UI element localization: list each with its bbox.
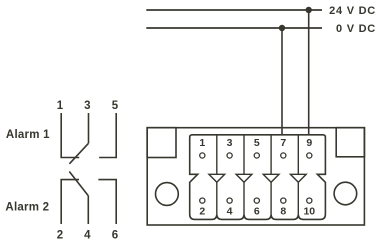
terminal 10 contact circle bottom: [307, 198, 312, 203]
terminal 6 contact circle bottom: [254, 198, 259, 203]
terminal 7 contact circle top: [281, 153, 286, 158]
svg-text:9: 9: [306, 137, 312, 149]
connector housing outline: [147, 128, 364, 225]
terminal 8 contact circle bottom: [281, 198, 286, 203]
terminal 4 contact circle bottom: [227, 198, 232, 203]
terminal 3 contact circle top: [227, 153, 232, 158]
housing keying notch top-right: [336, 128, 364, 157]
svg-text:6: 6: [112, 230, 118, 242]
node junction 0V: [279, 25, 285, 31]
contact arrow 1: [209, 174, 225, 182]
terminal divider 3 upper: [270, 135, 272, 175]
switch S1 pin1 lead: [61, 113, 79, 158]
svg-text:6: 6: [254, 206, 260, 218]
contact arrow 4: [290, 174, 306, 182]
wire drop from 24V to terminal 9: [308, 10, 310, 135]
terminal 5 contact circle top: [254, 153, 259, 158]
contact arrow 2: [236, 174, 252, 182]
contact arrow 3: [263, 174, 279, 182]
terminal divider 2 lower: [243, 182, 245, 214]
svg-text:24 V DC: 24 V DC: [329, 5, 376, 17]
svg-text:4: 4: [227, 206, 233, 218]
terminal divider 3 lower: [270, 182, 272, 214]
switch S1 pin5 lead: [99, 113, 116, 158]
switch S1 pin3 lead: [88, 113, 90, 143]
switch S2 pin4 lead: [87, 196, 89, 224]
svg-text:5: 5: [112, 100, 119, 112]
svg-text:1: 1: [57, 100, 64, 112]
svg-text:3: 3: [84, 100, 90, 112]
svg-text:Alarm 1: Alarm 1: [6, 129, 50, 141]
terminal 9 contact circle top: [307, 153, 312, 158]
housing keying notch top-left: [147, 128, 176, 158]
terminal divider 4 upper: [297, 135, 299, 175]
terminal divider 2 upper: [243, 135, 245, 175]
svg-text:8: 8: [280, 206, 286, 218]
svg-text:0 V DC: 0 V DC: [336, 23, 376, 35]
wire drop from 0V to terminal 7: [281, 28, 283, 135]
node junction 24V: [306, 7, 312, 13]
terminal 2 contact circle bottom: [200, 198, 205, 203]
svg-text:Alarm 2: Alarm 2: [5, 201, 49, 213]
terminal divider 1 lower: [216, 182, 218, 214]
switch S2 lever: [69, 172, 88, 196]
svg-text:2: 2: [57, 230, 63, 242]
terminal divider 1 upper: [216, 135, 218, 175]
mounting hole right: [334, 182, 357, 205]
wire 0V rail: [146, 27, 322, 29]
svg-text:4: 4: [84, 230, 91, 242]
mounting hole left: [156, 183, 179, 206]
terminal divider 4 lower: [297, 182, 299, 214]
terminal 1 contact circle top: [200, 153, 205, 158]
svg-text:1: 1: [199, 137, 205, 149]
svg-text:3: 3: [227, 137, 233, 149]
svg-text:2: 2: [199, 206, 205, 218]
switch S1 lever: [69, 143, 88, 164]
switch S2 pin2 lead: [61, 180, 79, 224]
switch S2 pin6 lead: [98, 180, 116, 224]
terminal block body outline: [190, 135, 326, 220]
svg-text:10: 10: [303, 206, 315, 218]
svg-text:5: 5: [254, 137, 260, 149]
wire 24V rail: [146, 9, 322, 11]
svg-text:7: 7: [280, 137, 286, 149]
